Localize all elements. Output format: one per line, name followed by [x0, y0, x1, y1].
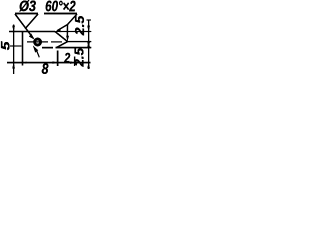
leader dia3 branch [25, 14, 38, 29]
extension line x74 [74, 57, 76, 67]
dim right top tick [87, 19, 92, 21]
dim 5 arrow bottom [12, 63, 15, 69]
svg-text:2.5: 2.5 [72, 47, 87, 67]
right top extension y31.5 [61, 31, 91, 33]
dim 8 arrow right [53, 61, 58, 64]
centerline stub left [10, 45, 22, 47]
part top edge [9, 31, 55, 33]
label dia3 underline [15, 13, 38, 15]
label 60x2 underline [44, 13, 77, 15]
dim 8 arrow left [23, 62, 27, 64]
dim line right vertical [88, 20, 90, 70]
dim 5 line [13, 25, 15, 75]
sub-circle arrow tail [37, 51, 40, 57]
sub-circle arrowhead [33, 45, 39, 52]
leader 60x2 branch [66, 25, 68, 37]
svg-text:2.5: 2.5 [72, 15, 87, 36]
extension line x57 [57, 51, 59, 67]
dim 2.5 bottom arrow lowest [87, 63, 90, 69]
bottom edge left segment [42, 47, 53, 49]
svg-text:8: 8 [42, 61, 49, 78]
tip extension line right [68, 41, 92, 43]
leader 60x2 arrowhead1 [55, 29, 61, 32]
dim 2.5 top arrow upper [87, 26, 90, 32]
leader 60x2 main [57, 14, 77, 31]
leader dia3 main [15, 14, 33, 38]
part top chamfer [55, 32, 68, 42]
dim 5 arrow top [12, 26, 15, 32]
centerline left segment [27, 41, 48, 43]
centerline mid segment [51, 41, 62, 43]
dim 2 arrow right [70, 61, 74, 64]
part bottom chamfer [57, 42, 68, 48]
leader 60x2 arrowhead2 [66, 36, 69, 42]
bottom row line [7, 62, 91, 64]
dim 2.5 bottom arrow upper [87, 42, 90, 48]
dim 2.5 top arrow lower [87, 42, 90, 48]
part left edge [22, 31, 24, 66]
leader dia3 arrowhead [29, 34, 35, 40]
hole circle [35, 39, 41, 45]
svg-text:5: 5 [1, 41, 13, 51]
bottom edge right segment [56, 47, 92, 49]
svg-text:2: 2 [64, 50, 71, 66]
